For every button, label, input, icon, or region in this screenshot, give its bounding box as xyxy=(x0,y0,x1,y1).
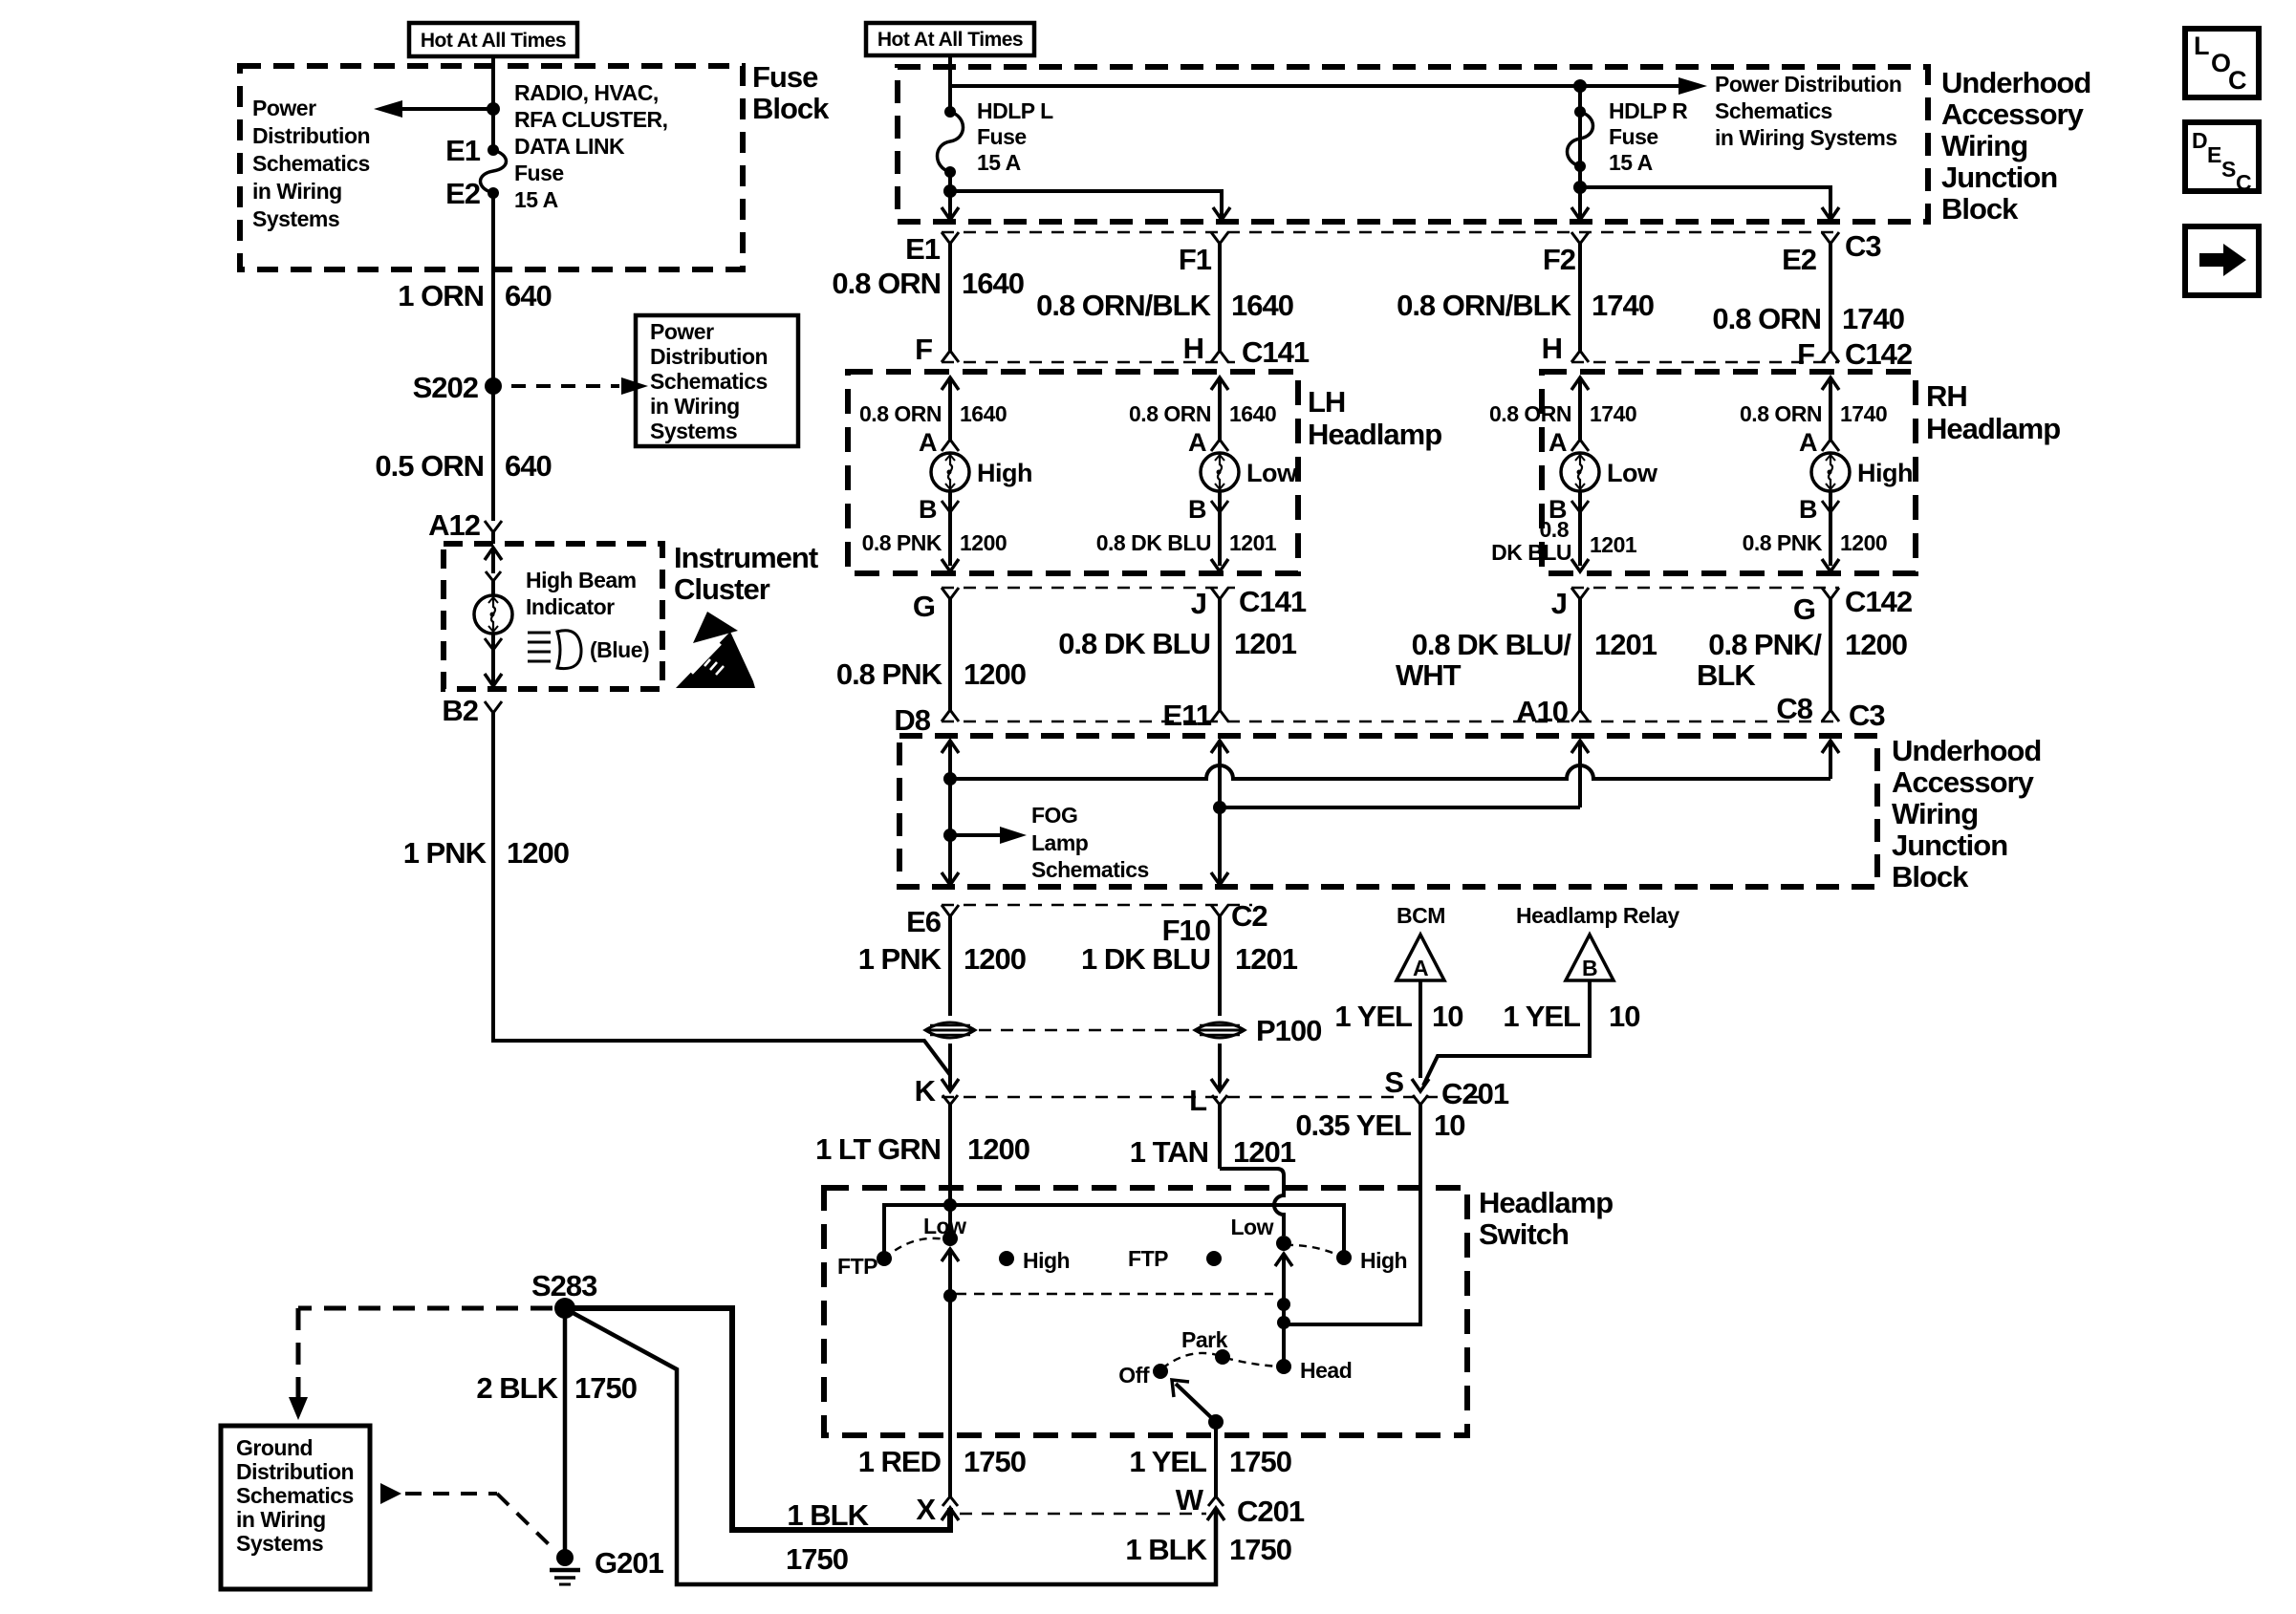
wire 1 BLK 1750 from X to splice S283 xyxy=(570,1308,950,1530)
wire label 1 DK BLU 1201 xyxy=(1081,942,1298,976)
svg-text:Headlamp: Headlamp xyxy=(1479,1186,1613,1219)
svg-text:X: X xyxy=(916,1493,936,1526)
wire label 1 YEL 10 (BCM) xyxy=(1334,1000,1462,1033)
headlamp beam icon with (Blue) label xyxy=(528,631,649,669)
wire 0.8 ORN/BLK 1740 from F2 to H xyxy=(1578,244,1582,351)
connector C141 dashed line (top) xyxy=(942,361,1235,363)
wire 0.35 YEL 10 from S into headlamp switch xyxy=(1291,1105,1420,1324)
svg-text:B2: B2 xyxy=(442,694,478,727)
left dimmer wiper with up arrow xyxy=(942,1249,959,1496)
svg-text:E2: E2 xyxy=(1782,243,1816,276)
wire from left grommet down to connector K with arrow xyxy=(942,1044,959,1091)
svg-text:Power: Power xyxy=(252,96,316,120)
svg-text:Power: Power xyxy=(650,319,714,344)
fuse HDLP R 15 A xyxy=(1568,106,1593,172)
svg-text:C: C xyxy=(2228,66,2246,95)
dashed throw Off to Park xyxy=(1162,1353,1221,1368)
svg-text:B: B xyxy=(919,495,937,524)
svg-text:1 YEL: 1 YEL xyxy=(1334,1000,1412,1033)
svg-text:Systems: Systems xyxy=(252,206,339,231)
grommet P100 left xyxy=(925,1022,975,1038)
note text Power Distribution Schematics in Wiring Systems (top right) xyxy=(1715,72,1901,150)
svg-text:Hot At All Times: Hot At All Times xyxy=(877,29,1023,51)
svg-text:Low: Low xyxy=(1607,459,1658,487)
svg-text:RFA CLUSTER,: RFA CLUSTER, xyxy=(514,107,668,132)
pin B of LH High lamp xyxy=(919,491,959,566)
right dimmer switch Low contact xyxy=(1231,1215,1292,1251)
svg-text:1201: 1201 xyxy=(1235,942,1298,976)
svg-text:Ground: Ground xyxy=(236,1435,313,1460)
connector pin F10 of C2 xyxy=(1162,905,1228,947)
high beam indicator lamp in cluster xyxy=(474,548,512,686)
wire 2 BLK 1750 from S283 to ground G201 xyxy=(563,1308,568,1551)
svg-text:E: E xyxy=(2207,142,2221,167)
svg-text:0.8 ORN: 0.8 ORN xyxy=(1740,401,1822,426)
down arrow out of RH High lamp xyxy=(1822,559,1839,571)
legend box right arrow xyxy=(2185,226,2259,295)
svg-text:15 A: 15 A xyxy=(514,187,558,212)
LH High beam lamp xyxy=(931,453,1032,491)
wire label 0.8 ORN/BLK 1640 xyxy=(1036,289,1293,322)
svg-text:1740: 1740 xyxy=(1842,302,1904,335)
wire 0.8 ORN 1640 from E1 to F xyxy=(948,244,952,351)
connector pin S of C201 xyxy=(1384,1065,1428,1105)
svg-text:High: High xyxy=(1857,459,1913,487)
component label Underhood Accessory Wiring Junction Block (top) xyxy=(1941,66,2090,226)
legend box DESC xyxy=(2185,122,2259,195)
connector pin A12 at instrument cluster xyxy=(428,508,502,544)
svg-text:640: 640 xyxy=(505,449,552,483)
connector row C3 dashed line (middle) xyxy=(942,721,1843,722)
wire 1 DK BLU 1201 from F10 to grommet P100 xyxy=(1218,916,1222,1016)
svg-text:1200: 1200 xyxy=(1845,628,1907,661)
wire label 1 BLK 1750 (left of X) xyxy=(786,1498,870,1576)
fog lamp schematics tap arrow xyxy=(943,827,1027,844)
svg-text:Block: Block xyxy=(752,92,830,125)
pin B of LH Low lamp xyxy=(1188,491,1228,566)
wire label 1 LT GRN 1200 xyxy=(815,1132,1029,1166)
component label Underhood Accessory Wiring Junction Block (middle) xyxy=(1892,734,2041,893)
svg-text:1640: 1640 xyxy=(960,401,1007,426)
node feed to other circuits with left arrow xyxy=(374,100,500,118)
svg-text:in Wiring Systems: in Wiring Systems xyxy=(1715,125,1897,150)
svg-text:A: A xyxy=(1413,956,1428,980)
svg-text:1201: 1201 xyxy=(1590,532,1637,557)
rotary switch Off contact xyxy=(1118,1363,1168,1388)
RH Low beam lamp xyxy=(1561,453,1658,491)
svg-text:P100: P100 xyxy=(1256,1014,1321,1047)
wire 0.5 ORN 640 from S202 to A12 xyxy=(491,386,495,521)
svg-text:RH: RH xyxy=(1926,379,1967,413)
svg-text:Block: Block xyxy=(1941,192,2019,226)
bus wire to power distribution schematics with right arrow xyxy=(950,77,1707,95)
svg-text:0.8 ORN/BLK: 0.8 ORN/BLK xyxy=(1397,289,1572,322)
svg-text:(Blue): (Blue) xyxy=(590,637,649,662)
dashed reference arrow from S202 xyxy=(511,377,648,395)
connector C201 dashed line (bottom) xyxy=(960,1513,1206,1515)
wire label 0.8 PNK 1200 xyxy=(1743,530,1888,555)
underhood accessory wiring junction block dashed box (middle) xyxy=(899,736,1877,887)
svg-text:Accessory: Accessory xyxy=(1892,765,2035,799)
component label RH Headlamp xyxy=(1926,379,2060,445)
svg-text:L: L xyxy=(1189,1084,1206,1117)
dashed ground reference from S283 to ground note with arrow xyxy=(289,1308,552,1420)
svg-text:Schematics: Schematics xyxy=(650,369,768,394)
svg-text:DATA LINK: DATA LINK xyxy=(514,134,625,159)
svg-text:S202: S202 xyxy=(413,371,478,404)
svg-text:Head: Head xyxy=(1300,1358,1352,1383)
svg-text:1 PNK: 1 PNK xyxy=(403,836,487,870)
svg-text:HDLP R: HDLP R xyxy=(1609,98,1688,123)
svg-text:HDLP L: HDLP L xyxy=(977,98,1053,123)
svg-text:Accessory: Accessory xyxy=(1941,97,2085,131)
grommet P100 right with label xyxy=(1195,1014,1321,1047)
RH High beam lamp xyxy=(1811,453,1913,491)
svg-text:C201: C201 xyxy=(1237,1495,1305,1528)
connector pin X of C201 xyxy=(916,1493,959,1526)
svg-text:0.8 PNK/: 0.8 PNK/ xyxy=(1708,628,1822,661)
svg-text:Fuse: Fuse xyxy=(514,161,564,185)
svg-text:C142: C142 xyxy=(1845,337,1912,371)
svg-text:0.35 YEL: 0.35 YEL xyxy=(1295,1108,1411,1142)
svg-text:Headlamp: Headlamp xyxy=(1926,412,2060,445)
svg-text:Low: Low xyxy=(1231,1215,1274,1239)
svg-text:C3: C3 xyxy=(1849,699,1885,732)
junction block wire stub to A10 with up arrow xyxy=(1571,741,1589,807)
wire label 0.8 DK BLU/WHT 1201 xyxy=(1396,628,1657,692)
wire label 0.8 ORN/BLK 1740 xyxy=(1397,289,1654,322)
wire label 0.35 YEL 10 xyxy=(1295,1108,1464,1142)
svg-text:A: A xyxy=(1799,428,1817,457)
svg-text:High: High xyxy=(1023,1248,1070,1273)
svg-text:0.8 PNK: 0.8 PNK xyxy=(836,657,943,691)
wire label 0.8 DK BLU 1201 xyxy=(1096,530,1277,555)
svg-text:0.5 ORN: 0.5 ORN xyxy=(375,449,484,483)
svg-text:G: G xyxy=(1793,592,1815,626)
svg-text:1640: 1640 xyxy=(1229,401,1276,426)
pin A of LH High lamp xyxy=(919,428,959,457)
svg-text:LH: LH xyxy=(1308,385,1345,419)
svg-text:G201: G201 xyxy=(595,1546,664,1580)
svg-text:1640: 1640 xyxy=(962,267,1024,300)
svg-text:Low: Low xyxy=(1246,459,1298,487)
connector pin F1 of C3 xyxy=(1179,232,1228,276)
wire 1 ORN 640 from fuse to splice S202 xyxy=(491,193,495,386)
svg-text:Hot At All Times: Hot At All Times xyxy=(421,30,566,52)
svg-text:J: J xyxy=(1551,587,1567,620)
svg-text:1740: 1740 xyxy=(1840,401,1887,426)
svg-text:C2: C2 xyxy=(1231,899,1267,933)
svg-text:J: J xyxy=(1191,587,1206,620)
wire 1 PNK 1200 from E6 to grommet P100 xyxy=(948,916,952,1016)
wire label 0.8 ORN 1640 xyxy=(859,401,1007,426)
junction block wire D8 to E6 with arrows xyxy=(942,741,959,885)
connector pin J of C141 xyxy=(1191,587,1228,620)
svg-text:Systems: Systems xyxy=(650,419,737,443)
svg-text:1200: 1200 xyxy=(1840,530,1887,555)
connector pin K of C201 xyxy=(915,1074,958,1205)
svg-text:0.8 PNK: 0.8 PNK xyxy=(862,530,942,555)
svg-text:F: F xyxy=(1797,337,1814,371)
wire from Hot box into junction block xyxy=(948,55,952,112)
svg-text:Cluster: Cluster xyxy=(674,572,770,606)
svg-text:Wiring: Wiring xyxy=(1892,797,1978,830)
component label Instrument Cluster xyxy=(674,541,818,606)
svg-text:1 TAN: 1 TAN xyxy=(1130,1135,1208,1169)
wire label 0.8 PNK/BLK 1200 xyxy=(1697,628,1907,692)
wire 0.8 DK BLU 1201 from J to E11 xyxy=(1218,599,1222,710)
svg-text:10: 10 xyxy=(1434,1108,1464,1142)
svg-text:Headlamp Relay: Headlamp Relay xyxy=(1516,903,1679,928)
svg-text:A10: A10 xyxy=(1516,695,1568,728)
svg-text:C8: C8 xyxy=(1776,692,1812,725)
wire 1 YEL 10 from BCM A to connector S with arrow xyxy=(1412,980,1429,1091)
svg-text:E1: E1 xyxy=(445,134,481,167)
svg-text:Schematics: Schematics xyxy=(252,151,370,176)
svg-text:0.8 DK BLU/: 0.8 DK BLU/ xyxy=(1412,628,1572,661)
wire label 0.8 DK BLU 1201 xyxy=(1058,627,1297,660)
right dimmer switch High contact xyxy=(1336,1248,1407,1273)
wire label 0.8 ORN 1740 xyxy=(1740,401,1887,426)
wire into LH High lamp with up arrow xyxy=(942,377,959,440)
svg-text:Fuse: Fuse xyxy=(1609,124,1658,149)
connector row C3 dashed line xyxy=(942,231,1840,233)
svg-text:15 A: 15 A xyxy=(977,150,1021,175)
connector pin F of C141 xyxy=(915,333,959,366)
svg-text:FOG: FOG xyxy=(1031,803,1077,828)
svg-text:1200: 1200 xyxy=(960,530,1007,555)
svg-text:Junction: Junction xyxy=(1892,829,2007,862)
wire label 0.8 PNK 1200 xyxy=(862,530,1007,555)
junction block wire stub to C8 with up arrow xyxy=(1822,741,1839,779)
svg-text:1 DK BLU: 1 DK BLU xyxy=(1081,942,1210,976)
svg-text:F1: F1 xyxy=(1179,243,1212,276)
svg-text:10: 10 xyxy=(1432,1000,1462,1033)
connector pin H of C141 xyxy=(1183,332,1228,365)
svg-text:High: High xyxy=(977,459,1032,487)
wire label 1 BLK 1750 (right) xyxy=(1125,1533,1291,1566)
svg-text:1 YEL: 1 YEL xyxy=(1503,1000,1580,1033)
wire 0.8 ORN/BLK 1640 from F1 to H xyxy=(1218,244,1222,351)
svg-text:0.8 ORN: 0.8 ORN xyxy=(1712,302,1821,335)
note text Power Distribution Schematics in Wiring Systems (left) xyxy=(252,96,370,231)
wire 0.8 PNK 1200 from G to D8 xyxy=(948,599,952,710)
connector pin E2 of C3 xyxy=(1782,232,1839,276)
wire label 0.8 ORN 1740 xyxy=(1489,401,1636,426)
pin A of LH Low lamp xyxy=(1188,428,1228,457)
svg-text:G: G xyxy=(913,590,935,623)
wire 0.8 ORN 1740 from E2 to F xyxy=(1829,244,1832,351)
svg-text:DK BLU: DK BLU xyxy=(1491,540,1571,565)
svg-text:Schematics: Schematics xyxy=(1031,857,1149,882)
svg-text:2 BLK: 2 BLK xyxy=(476,1371,558,1405)
svg-text:1 PNK: 1 PNK xyxy=(858,942,942,976)
svg-text:B: B xyxy=(1188,495,1206,524)
svg-text:0.8 ORN: 0.8 ORN xyxy=(859,401,942,426)
pin B of RH High lamp xyxy=(1799,491,1839,566)
connector pin L of C201 xyxy=(1189,1084,1227,1169)
svg-text:C3: C3 xyxy=(1845,229,1881,263)
component label Headlamp Switch xyxy=(1479,1186,1613,1251)
svg-text:H: H xyxy=(1542,332,1562,365)
wire 1 YEL 10 from relay B joining connector S xyxy=(1423,980,1590,1086)
svg-text:Switch: Switch xyxy=(1479,1217,1569,1251)
svg-text:1740: 1740 xyxy=(1592,289,1654,322)
svg-text:A: A xyxy=(919,428,937,457)
connector C142 dashed line (bottom) xyxy=(1571,587,1839,589)
connector pin J of C142 xyxy=(1551,587,1589,620)
wire label 1 ORN 640 xyxy=(398,279,551,312)
note text FOG Lamp Schematics xyxy=(1031,803,1149,882)
wire 0.8 DK BLU/WHT 1201 from J to A10 xyxy=(1578,599,1582,710)
wire 1 PNK 1200 from B2 down and right to connector K xyxy=(493,713,950,1075)
svg-text:RADIO, HVAC,: RADIO, HVAC, xyxy=(514,80,659,105)
down arrow out of LH Low lamp xyxy=(1211,559,1228,571)
headlamp switch dashed box xyxy=(824,1188,1467,1435)
svg-text:BLK: BLK xyxy=(1697,658,1756,692)
dashed throw Park to Head xyxy=(1225,1358,1281,1367)
svg-text:15 A: 15 A xyxy=(1609,150,1653,175)
connector C142 dashed line (top) xyxy=(1571,361,1839,363)
svg-text:Junction: Junction xyxy=(1941,161,2057,194)
svg-text:E11: E11 xyxy=(1163,699,1212,732)
wire into RH High lamp with up arrow xyxy=(1822,377,1839,440)
svg-text:C: C xyxy=(2236,170,2251,195)
svg-text:1201: 1201 xyxy=(1229,530,1277,555)
svg-text:Schematics: Schematics xyxy=(236,1483,354,1508)
svg-text:Distribution: Distribution xyxy=(236,1459,354,1484)
connector pin F of C142 xyxy=(1797,337,1839,371)
svg-text:1750: 1750 xyxy=(1229,1445,1291,1478)
wire label 0.8 ORN 1640 xyxy=(832,267,1024,300)
svg-text:C201: C201 xyxy=(1441,1077,1509,1110)
svg-text:1 ORN: 1 ORN xyxy=(398,279,484,312)
svg-text:1200: 1200 xyxy=(964,942,1026,976)
svg-text:0.8 ORN: 0.8 ORN xyxy=(1489,401,1571,426)
wire label 0.8 ORN 1740 xyxy=(1712,302,1904,335)
svg-text:0.8 ORN/BLK: 0.8 ORN/BLK xyxy=(1036,289,1212,322)
connector pin A10 of C3 xyxy=(1516,695,1589,728)
rotary wiper arm with arrow toward Off xyxy=(1172,1380,1224,1430)
svg-text:0.8 ORN: 0.8 ORN xyxy=(832,267,941,300)
junction block bus wire from D8 wire to C8 with hops xyxy=(943,765,1830,785)
svg-text:FTP: FTP xyxy=(1128,1246,1168,1271)
connector C141 dashed line (bottom) xyxy=(942,587,1235,589)
svg-text:High: High xyxy=(1360,1248,1407,1273)
wire label 0.8 ORN 1640 xyxy=(1129,401,1276,426)
junction block bus wire from E11 wire to A10 xyxy=(1213,801,1580,814)
wire from right grommet down to connector L with arrow xyxy=(1211,1044,1228,1091)
svg-text:0.8: 0.8 xyxy=(1540,517,1570,542)
svg-text:1 BLK: 1 BLK xyxy=(787,1498,869,1532)
svg-text:S: S xyxy=(2221,157,2236,182)
svg-text:in Wiring: in Wiring xyxy=(236,1507,326,1532)
down arrow out of RH Low lamp xyxy=(1571,559,1589,571)
ESD sensitive device symbol xyxy=(676,612,755,688)
svg-text:F: F xyxy=(915,333,932,366)
svg-text:1200: 1200 xyxy=(967,1132,1029,1166)
wire label 1 TAN 1201 xyxy=(1130,1135,1296,1169)
wire label 1 RED 1750 xyxy=(858,1445,1026,1478)
svg-text:F2: F2 xyxy=(1543,243,1575,276)
wire label 1 PNK 1200 cluster feed xyxy=(403,836,569,870)
svg-text:E1: E1 xyxy=(905,232,941,266)
fuse block dashed box xyxy=(240,66,743,269)
splice S202 xyxy=(413,371,502,404)
svg-text:FTP: FTP xyxy=(837,1254,877,1279)
svg-text:Underhood: Underhood xyxy=(1941,66,2090,99)
note box Ground Distribution Schematics in Wiring Systems xyxy=(221,1426,370,1589)
svg-text:Lamp: Lamp xyxy=(1031,830,1089,855)
LH Low beam lamp xyxy=(1201,453,1298,491)
wire into LH Low lamp with up arrow xyxy=(1211,377,1228,440)
svg-text:1200: 1200 xyxy=(964,657,1026,691)
fuse RADIO HVAC RFA CLUSTER DATA LINK 15A between pins E1 and E2 xyxy=(481,109,507,199)
wire and branch below HDLP L fuse with down arrows to E1 F1 xyxy=(942,172,1230,220)
junction block wire E11 to F10 with arrows xyxy=(1211,741,1228,885)
svg-text:1 LT GRN: 1 LT GRN xyxy=(815,1132,941,1166)
svg-text:in Wiring: in Wiring xyxy=(252,179,342,204)
wire label 1 YEL 1750 xyxy=(1129,1445,1291,1478)
svg-text:A: A xyxy=(1188,428,1206,457)
svg-text:Off: Off xyxy=(1118,1363,1150,1388)
connector pin E11 of C3 xyxy=(1163,699,1228,732)
svg-text:W: W xyxy=(1176,1483,1204,1517)
wire label 0.8 PNK 1200 xyxy=(836,657,1026,691)
svg-text:BCM: BCM xyxy=(1397,903,1445,928)
legend box LOC xyxy=(2185,29,2259,97)
connector pin G of C142 xyxy=(1793,588,1839,626)
svg-text:B: B xyxy=(1582,956,1597,980)
svg-text:0.8 DK BLU: 0.8 DK BLU xyxy=(1058,627,1210,660)
connector pin E1 of C3 xyxy=(905,232,959,266)
svg-text:1640: 1640 xyxy=(1231,289,1293,322)
triangle connector B to headlamp relay xyxy=(1566,935,1614,980)
svg-text:Schematics: Schematics xyxy=(1715,98,1832,123)
svg-text:D8: D8 xyxy=(894,703,930,737)
svg-text:S: S xyxy=(1384,1065,1403,1099)
svg-text:D: D xyxy=(2192,128,2207,153)
svg-text:Power Distribution: Power Distribution xyxy=(1715,72,1901,97)
svg-text:1 BLK: 1 BLK xyxy=(1125,1533,1207,1566)
component label Fuse Block xyxy=(752,60,830,125)
fuse name text RADIO HVAC RFA CLUSTER DATA LINK Fuse 15 A xyxy=(514,80,668,212)
underhood accessory wiring junction block dashed box (top) xyxy=(898,67,1928,222)
fuse label HDLP L Fuse 15 A xyxy=(977,98,1053,175)
svg-text:Park: Park xyxy=(1181,1327,1228,1352)
wire and branch below HDLP R fuse with down arrows to F2 E2 xyxy=(1571,86,1839,220)
svg-text:1740: 1740 xyxy=(1590,401,1636,426)
dashed throw FTP to Low (left switch) xyxy=(884,1238,945,1259)
wire label DK BLU 1201 xyxy=(1491,517,1637,565)
rotary switch Park contact xyxy=(1181,1327,1230,1365)
dashed throw Low to High (right switch) xyxy=(1286,1245,1342,1257)
rotary switch Head contact xyxy=(1276,1358,1352,1383)
pin A of RH Low lamp xyxy=(1549,428,1589,457)
svg-text:Fuse: Fuse xyxy=(977,124,1027,149)
right dimmer wiper with up arrow and stack dots xyxy=(1275,1254,1292,1367)
RH headlamp dashed box xyxy=(1542,372,1916,573)
svg-text:Distribution: Distribution xyxy=(252,123,370,148)
wire from rotary wiper to connector W xyxy=(1214,1422,1218,1496)
wire label 1 PNK 1200 xyxy=(858,942,1026,976)
splice S283 xyxy=(531,1269,597,1319)
power label box Hot At All Times (right) xyxy=(866,23,1034,55)
svg-text:0.8 DK BLU: 0.8 DK BLU xyxy=(1096,530,1211,555)
note box Power Distribution Schematics in Wiring Systems (solid border) xyxy=(636,315,798,446)
mechanical link dashed line between wipers xyxy=(956,1293,1273,1295)
svg-text:10: 10 xyxy=(1609,1000,1639,1033)
